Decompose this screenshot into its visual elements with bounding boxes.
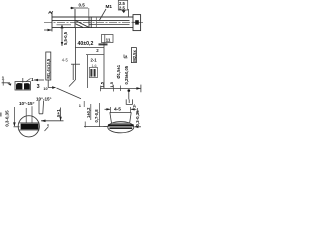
vertical dim line x62	[61, 25, 63, 46]
dimension 0.5 line	[70, 7, 88, 9]
faint vertical line x96	[95, 17, 97, 28]
tip ellipse view	[108, 122, 134, 133]
head rectangle	[133, 15, 141, 31]
svg-text:0.5: 0.5	[79, 2, 86, 7]
groove vertical line x75	[74, 9, 76, 28]
right dim of section view	[34, 79, 44, 81]
svg-text:1±0,2: 1±0,2	[86, 107, 91, 118]
leader to label 1	[26, 78, 31, 82]
taper diagonal 2	[76, 24, 84, 28]
dim line 40 horizontal	[75, 47, 104, 49]
svg-text:2-1: 2-1	[91, 58, 98, 63]
baseline	[84, 126, 108, 128]
centerline of pin	[44, 21, 143, 23]
extension line right of 0.5 dim	[88, 8, 90, 17]
dim line corner vertical x75	[75, 28, 77, 80]
tolerance frame box	[102, 35, 114, 43]
bottom leader line to ellipse	[104, 126, 109, 128]
section fill left	[16, 83, 22, 89]
groove vertical line x91	[90, 17, 92, 28]
svg-text:11: 11	[106, 37, 111, 42]
svg-text:1,5: 1,5	[109, 81, 114, 87]
extension vline	[99, 103, 101, 127]
callout symbol box	[89, 68, 97, 78]
projection lines below pin tip	[72, 64, 74, 80]
extension vline 2	[90, 104, 92, 120]
M1 thread leader	[99, 9, 106, 21]
blade trapezoid view	[110, 113, 131, 124]
svg-text:5,5-0,5: 5,5-0,5	[63, 31, 68, 45]
slot edge extension lines	[25, 108, 27, 123]
slot dark fill	[21, 124, 39, 130]
head end view circle	[18, 116, 39, 137]
svg-text:Ø1,5±1: Ø1,5±1	[116, 64, 121, 78]
roughness note top-right	[118, 0, 127, 13]
svg-text:10: 10	[43, 87, 47, 91]
boxed vertical note column with leader	[46, 52, 51, 80]
slot outline lines	[18, 122, 39, 124]
flat edge line inside pin	[57, 24, 72, 26]
left margin tick	[0, 113, 2, 117]
center tick above	[22, 78, 24, 83]
svg-text:1,5: 1,5	[99, 81, 104, 87]
svg-text:2.5: 2.5	[119, 5, 125, 10]
right arrow into slot band	[135, 126, 142, 128]
frame leader arrow bar	[99, 43, 108, 45]
taper diagonal 1	[76, 21, 89, 28]
svg-text:5+1: 5+1	[56, 109, 61, 117]
svg-text:0,25±0,05: 0,25±0,05	[124, 65, 129, 84]
blade profile detail	[39, 101, 44, 114]
dimension 0.5 arrow	[71, 7, 75, 9]
bottom-center dim 5	[60, 108, 62, 121]
pin inner line lower right	[89, 23, 130, 25]
left arrow stub of thread-length dim	[44, 29, 52, 31]
view direction arrow symbol	[128, 89, 131, 92]
svg-text:4-5: 4-5	[114, 107, 121, 113]
leader from frame to dim line	[103, 43, 105, 48]
svg-text:0,7-0,8: 0,7-0,8	[94, 109, 99, 123]
right vertical text column	[131, 48, 136, 63]
svg-text:3: 3	[37, 84, 40, 90]
extension line left end	[51, 28, 53, 32]
right label block corner	[124, 55, 127, 58]
pin inner line upper	[52, 19, 130, 21]
groove vertical line x89	[88, 17, 90, 28]
svg-text:M2,5x: M2,5x	[132, 49, 137, 61]
svg-text:M1: M1	[106, 4, 113, 9]
long leader down	[103, 48, 105, 89]
slot depth dim line to circle	[41, 120, 64, 122]
svg-text:M1,4x14,5: M1,4x14,5	[46, 58, 51, 78]
pin body outline	[52, 13, 133, 29]
long leader diagonal to note	[57, 88, 82, 99]
svg-text:40±0,2: 40±0,2	[78, 41, 94, 47]
svg-text:4-5: 4-5	[62, 57, 69, 62]
ellipse slot dark band	[108, 124, 134, 126]
head slot dark mark	[135, 20, 139, 24]
lower-left section view outline	[15, 82, 30, 90]
long horizontal leader with end arrow	[100, 87, 141, 89]
extension line from note	[128, 9, 130, 17]
svg-text:10°-15°: 10°-15°	[19, 101, 35, 106]
svg-text:0,3-0,35: 0,3-0,35	[5, 110, 10, 127]
svg-text:1: 1	[31, 77, 34, 83]
small tick marks near circle	[47, 124, 49, 126]
roughness mark above pin tip	[49, 11, 53, 13]
callout block bracket	[86, 55, 104, 89]
section fill right	[24, 83, 30, 89]
tick marks on base leader	[113, 85, 115, 92]
